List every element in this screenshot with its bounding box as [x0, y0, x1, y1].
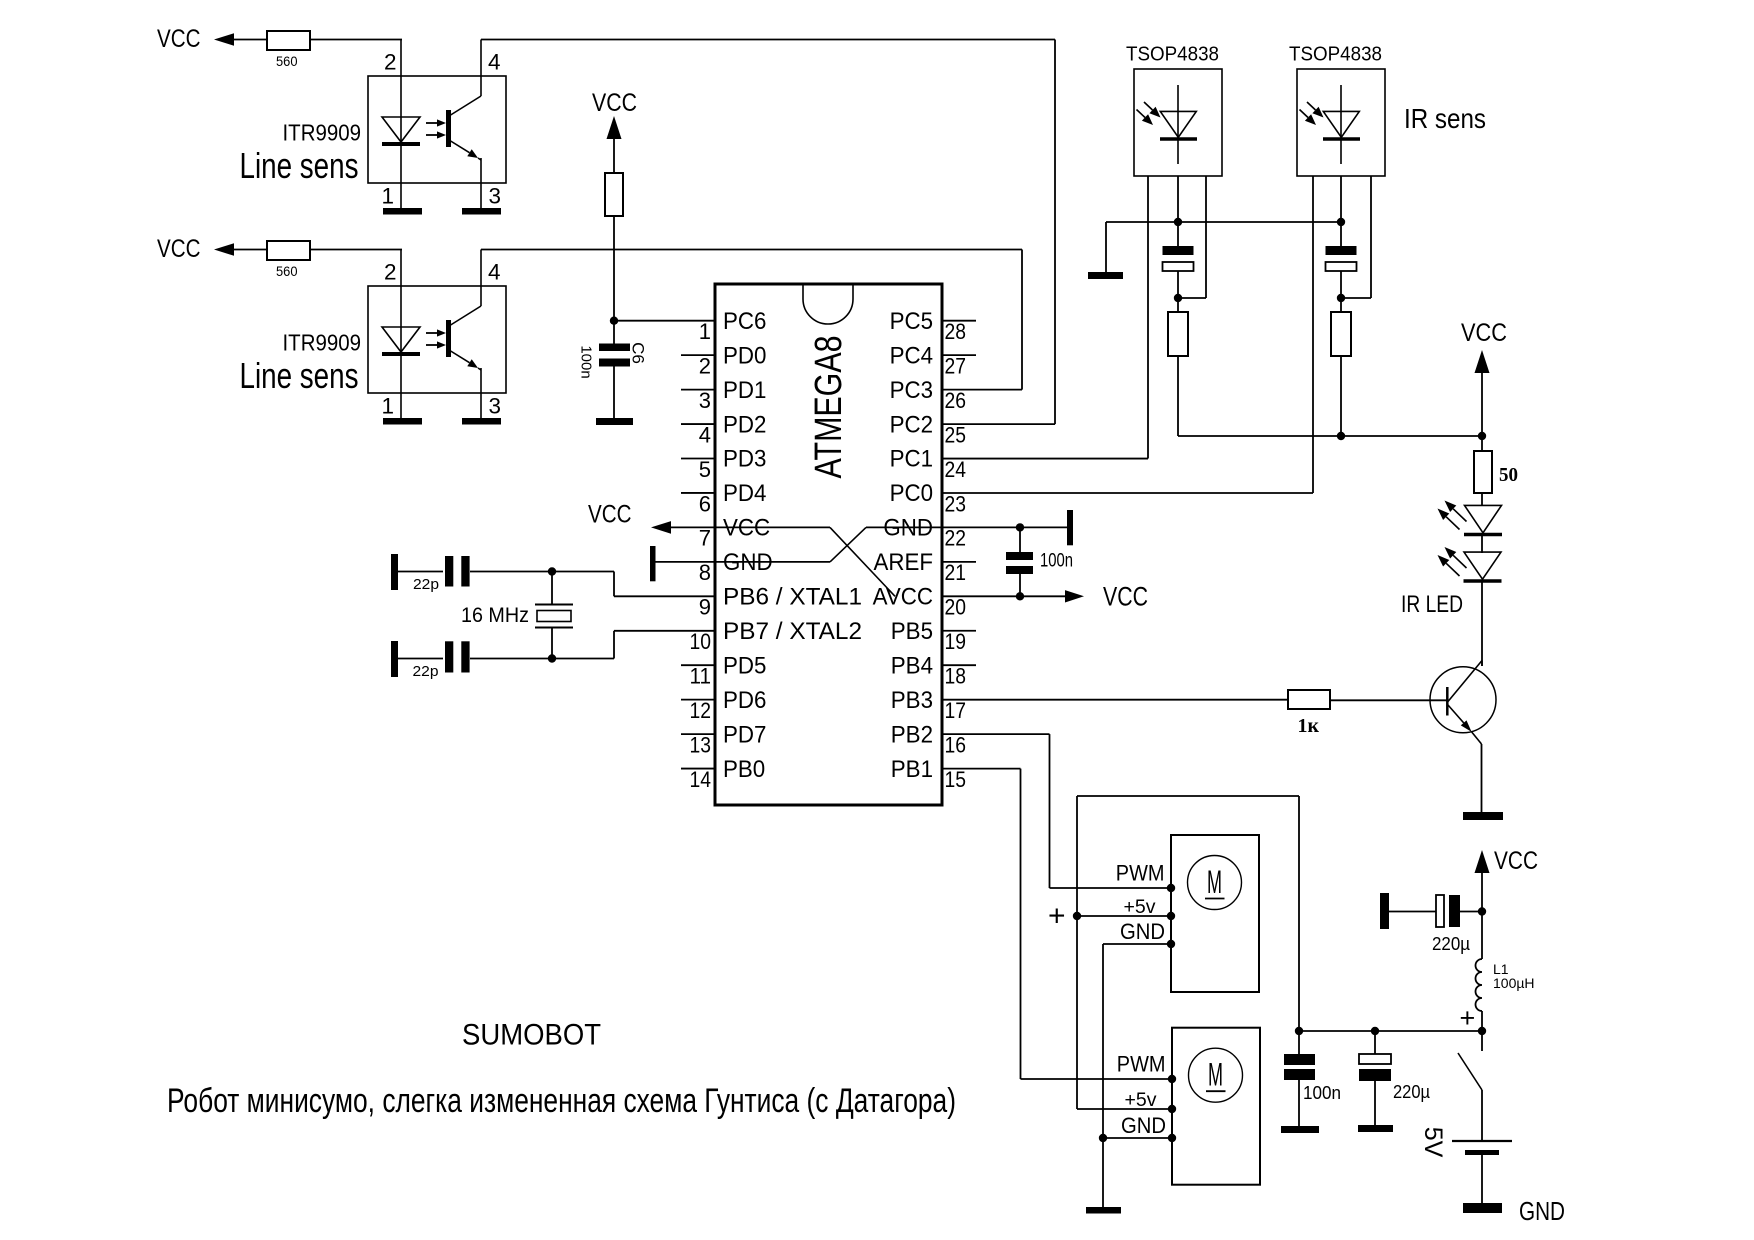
ground bar opto2 pin 3 [462, 418, 501, 425]
capacitor 100n (battery) [1298, 1031, 1300, 1054]
svg-text:1: 1 [381, 394, 394, 419]
wire AVCC out [942, 595, 1067, 597]
svg-text:28: 28 [945, 319, 967, 344]
wire XTAL1 node to PB6 pin 9 [552, 571, 614, 573]
svg-text:17: 17 [945, 698, 967, 723]
capacitor 100n (AREF/AVCC decoupling) [1006, 552, 1033, 560]
U1 pin 12 stub [681, 699, 715, 701]
svg-text:PD7: PD7 [723, 721, 766, 748]
VCC arrow (line sensor 1) [214, 33, 234, 46]
wire GND8-GND22 crossover diagonal [830, 527, 866, 562]
ground bar transistor emitter [1463, 812, 1503, 820]
capacitor 22p bottom [445, 641, 453, 672]
svg-text:IR LED: IR LED [1401, 591, 1463, 618]
wire TSOP2 resistor to VCC rail [1340, 298, 1342, 312]
opto1 phototransistor base bar [446, 110, 451, 147]
ground bar (pin 22) [1067, 510, 1073, 545]
optocoupler ITR9909 #2 body [368, 286, 506, 393]
svg-text:4: 4 [488, 260, 501, 285]
U1 pin 11 stub [681, 664, 715, 666]
ground bar opto1 pin 1 [383, 208, 422, 215]
VCC arrow (line sensor 2) [214, 243, 234, 256]
svg-text:7: 7 [699, 526, 711, 551]
optocoupler ITR9909 #1 body [368, 76, 506, 183]
svg-text:PB2: PB2 [891, 721, 933, 748]
battery 5V [1452, 1140, 1512, 1142]
opto1 pin 2 lead + LED anode wire [400, 40, 402, 209]
node battery + rail right [1478, 1027, 1486, 1035]
node motor2 PWM [1168, 1075, 1176, 1083]
TSOP2 right pin (Vs) [1370, 176, 1372, 298]
capacitor C6 100n [599, 344, 630, 352]
svg-text:C6: C6 [629, 342, 648, 364]
TSOP1 left pin (OUT) [1147, 175, 1149, 177]
U1 pin 13 stub [681, 733, 715, 735]
wire VCC-AVCC crossover diagonal [830, 527, 895, 596]
node 100n junction [1295, 1027, 1303, 1035]
U1 pin 19 stub [942, 630, 976, 632]
svg-text:15: 15 [945, 767, 967, 792]
node TSOP2 resistor junction [1337, 432, 1345, 440]
motor M1 symbol [1188, 856, 1242, 910]
wire XTAL2 node to PB7 pin 10 [552, 658, 614, 660]
IC U1 ATMEGA8 body [715, 284, 942, 805]
svg-text:1: 1 [699, 319, 711, 344]
svg-text:PWM: PWM [1117, 1052, 1166, 1077]
svg-text:100µH: 100µH [1493, 975, 1535, 991]
svg-text:16 MHz: 16 MHz [461, 604, 529, 627]
ground bar opto1 pin 3 [462, 208, 501, 215]
IR receiver TSOP4838 #2 body [1297, 69, 1385, 176]
svg-text:TSOP4838: TSOP4838 [1126, 43, 1219, 66]
resistor TSOP2 supply [1331, 312, 1351, 356]
inductor L1 100uH [1481, 912, 1483, 960]
wire resistor to node C6 [613, 216, 615, 321]
wire 22p to XTAL2 node [470, 658, 552, 660]
resistor 1k [1288, 690, 1330, 709]
svg-text:26: 26 [945, 388, 967, 413]
U1 pin 4 stub [681, 423, 715, 425]
U1 pin 18 stub [942, 664, 976, 666]
wire battery + rail [1299, 1030, 1482, 1032]
svg-text:PC4: PC4 [890, 342, 933, 369]
node motor1 +5v [1167, 912, 1175, 920]
svg-text:560: 560 [276, 54, 298, 69]
svg-text:VCC: VCC [592, 89, 637, 117]
wire transistor emitter to ground [1481, 744, 1483, 812]
ground symbol TSOP GND rail [1105, 222, 1107, 272]
svg-text:2: 2 [699, 353, 711, 378]
node TSOP2 supply junction [1337, 294, 1345, 302]
svg-text:VCC: VCC [1494, 847, 1538, 875]
svg-text:1к: 1к [1298, 715, 1320, 737]
U1 pin 6 stub [681, 492, 715, 494]
svg-text:+5v: +5v [1125, 1089, 1157, 1111]
svg-text:2: 2 [384, 260, 397, 285]
wire VCC arrow to resistor 2 [233, 249, 267, 251]
wire opto2 pin4 to PC3 (pin 26) [481, 249, 1022, 251]
svg-text:8: 8 [699, 560, 711, 585]
svg-text:22p: 22p [413, 663, 439, 680]
svg-text:23: 23 [945, 491, 967, 516]
wire TSOP2 OUT to PC0 (pin 23) [942, 492, 1313, 494]
ground bar battery [1463, 1203, 1502, 1213]
svg-text:3: 3 [699, 388, 711, 413]
svg-text:2: 2 [384, 50, 397, 75]
motor M2 body [1172, 1028, 1260, 1185]
svg-text:+: + [1460, 1003, 1476, 1033]
opto1 light arrows [426, 122, 437, 124]
svg-text:10: 10 [690, 629, 712, 654]
ground bar 22p top [391, 554, 398, 590]
capacitor 220u (battery) [1374, 1031, 1376, 1054]
TSOP1 filter capacitor [1163, 246, 1194, 255]
svg-text:GND: GND [1121, 1113, 1166, 1138]
svg-text:11: 11 [690, 664, 712, 689]
svg-text:PB6 / XTAL1: PB6 / XTAL1 [723, 584, 862, 611]
svg-text:PD3: PD3 [723, 446, 766, 473]
ground bar 100n [1281, 1126, 1319, 1133]
TSOP2 light arrows [1307, 102, 1316, 110]
wire PB3 to base resistor [942, 699, 1288, 701]
TSOP1 middle pin to GND rail [1177, 176, 1179, 222]
ground bar (pin 8) [650, 546, 656, 581]
opto2 LED [382, 327, 420, 352]
svg-text:M: M [1208, 1057, 1223, 1093]
node 220u junction [1371, 1027, 1379, 1035]
svg-text:PWM: PWM [1116, 861, 1165, 886]
wire TSOP1 resistor to VCC rail [1177, 298, 1179, 312]
svg-text:20: 20 [945, 595, 967, 620]
opto1 LED [382, 117, 420, 142]
svg-text:50: 50 [1499, 464, 1518, 486]
svg-text:13: 13 [690, 732, 712, 757]
svg-text:22: 22 [945, 526, 967, 551]
svg-text:PB1: PB1 [891, 756, 933, 783]
ground bar 220u top [1380, 893, 1389, 929]
svg-text:VCC: VCC [588, 501, 632, 529]
svg-text:1: 1 [381, 184, 394, 209]
wire TSOP1 OUT to PC1 (pin 24) [942, 458, 1148, 460]
svg-text:PC0: PC0 [890, 480, 933, 507]
node motor2 +5v [1168, 1105, 1176, 1113]
opto2 light arrows [426, 332, 437, 334]
node TSOP1 supply junction [1174, 294, 1182, 302]
ground bar 22p bottom [391, 641, 398, 677]
svg-text:Робот минисумо, слегка изменен: Робот минисумо, слегка измененная схема … [167, 1082, 956, 1120]
wire VCC arrow to resistor 1 [233, 39, 267, 41]
svg-text:100n: 100n [1040, 551, 1073, 572]
svg-text:AVCC: AVCC [873, 584, 933, 611]
wire resistor to opto1 pin 2 [310, 39, 402, 41]
svg-text:PB5: PB5 [891, 618, 933, 645]
TSOP1 light arrows [1144, 102, 1153, 110]
ground bar 220u battery [1358, 1125, 1393, 1132]
wire gnd to cap 22p top [398, 571, 443, 573]
wire gnd into pin 8 [656, 561, 831, 563]
TSOP1 right pin (Vs) [1205, 176, 1207, 298]
wire GND net motors [1103, 943, 1171, 945]
opto1 emitter with arrow [449, 140, 470, 153]
svg-text:100n: 100n [1303, 1083, 1341, 1103]
node GND tee [1099, 1134, 1107, 1142]
svg-text:ITR9909: ITR9909 [283, 120, 362, 146]
svg-text:PD5: PD5 [723, 652, 766, 679]
capacitor 22p top [445, 556, 453, 587]
TSOP2 photodiode symbol [1340, 85, 1342, 164]
node GND22 junction [1016, 523, 1024, 531]
IR receiver TSOP4838 #1 body [1134, 69, 1222, 176]
U1 pin 27 stub [942, 354, 976, 356]
node +5v tee [1073, 912, 1081, 920]
svg-text:24: 24 [945, 457, 967, 482]
ground bar C6 [596, 418, 633, 425]
wire node to PC6 pin 1 [614, 320, 715, 322]
wire LED2 to transistor collector [1481, 582, 1483, 666]
svg-text:+: + [1048, 900, 1066, 933]
svg-text:PB7 / XTAL2: PB7 / XTAL2 [723, 618, 862, 645]
svg-text:4: 4 [699, 422, 711, 447]
U1 pin 2 stub [681, 354, 715, 356]
svg-text:M: M [1207, 864, 1222, 900]
resistor TSOP1 supply [1168, 312, 1188, 356]
TSOP2 filter capacitor [1326, 246, 1357, 255]
svg-text:21: 21 [945, 560, 967, 585]
VCC arrow up (IR LED) [1475, 350, 1490, 373]
opto1 collector [449, 96, 481, 116]
svg-text:18: 18 [945, 664, 967, 689]
node motor1 GND [1167, 940, 1175, 948]
U1 pin 14 stub [681, 768, 715, 770]
resistor 50 [1474, 451, 1492, 493]
svg-text:VCC: VCC [157, 235, 201, 263]
VCC arrow (pin 7) [651, 521, 671, 534]
opto2 collector [449, 306, 481, 326]
node AVCC junction [1016, 592, 1024, 600]
TSOP1 photodiode symbol [1177, 85, 1179, 164]
switch SW1 [1481, 1031, 1483, 1051]
svg-text:220µ: 220µ [1393, 1082, 1430, 1102]
svg-text:IR sens: IR sens [1404, 103, 1486, 134]
svg-text:Line sens: Line sens [240, 355, 359, 396]
TSOP2 left pin (OUT) [1312, 175, 1314, 177]
IR LED 1 [1465, 505, 1502, 532]
svg-text:16: 16 [945, 732, 967, 757]
U1 pin 21 stub [942, 561, 976, 563]
wire VCC into pin 7 [669, 526, 830, 528]
svg-text:14: 14 [690, 767, 712, 792]
svg-text:VCC: VCC [1461, 319, 1507, 347]
svg-text:TSOP4838: TSOP4838 [1289, 43, 1382, 66]
svg-text:PD0: PD0 [723, 342, 766, 369]
svg-text:PC2: PC2 [890, 411, 933, 438]
svg-text:PC5: PC5 [890, 308, 933, 335]
svg-text:5V: 5V [1419, 1127, 1447, 1158]
node motor1 PWM [1167, 884, 1175, 892]
wire PB1 to motor2 PWM [942, 768, 1021, 770]
svg-text:VCC: VCC [157, 25, 201, 53]
VCC arrow right (AVCC) [1065, 590, 1084, 602]
opto2 emitter with arrow [449, 350, 470, 363]
motor M2 symbol [1189, 1048, 1243, 1102]
svg-text:+5v: +5v [1124, 896, 1156, 918]
VCC arrow up (pull-up top) [607, 116, 622, 139]
svg-text:25: 25 [945, 422, 967, 447]
svg-text:GND: GND [1519, 1196, 1565, 1226]
svg-text:AREF: AREF [874, 549, 934, 576]
svg-text:PD2: PD2 [723, 411, 766, 438]
IR LED 2 [1464, 552, 1501, 579]
svg-text:22p: 22p [413, 576, 439, 593]
opto2 phototransistor base bar [446, 320, 451, 357]
wire gnd to cap 22p bottom [398, 658, 443, 660]
wire 22p to XTAL1 node [470, 571, 552, 573]
svg-text:5: 5 [699, 457, 711, 482]
wire PB2 to motor1 PWM [942, 733, 1050, 735]
U1 pin 28 stub [942, 320, 976, 322]
svg-text:SUMOBOT: SUMOBOT [462, 1019, 601, 1052]
node VCC/L1/220u junction [1478, 907, 1486, 915]
wire GND22 to ground bar [1020, 526, 1067, 528]
svg-text:4: 4 [488, 50, 501, 75]
svg-text:27: 27 [945, 353, 967, 378]
transistor Q1 NPN [1430, 667, 1496, 733]
svg-text:VCC: VCC [1103, 582, 1148, 612]
svg-text:ATMEGA8: ATMEGA8 [808, 336, 850, 479]
node XTAL2 junction [548, 654, 556, 662]
VCC arrow up (power) [1475, 850, 1490, 873]
svg-text:PD4: PD4 [723, 480, 766, 507]
node VCC rail junction [1478, 432, 1486, 440]
resistor 560 #1 [267, 31, 310, 50]
svg-text:PC1: PC1 [890, 446, 933, 473]
ground bar opto2 pin 1 [383, 418, 422, 425]
svg-text:PC3: PC3 [890, 377, 933, 404]
svg-text:220µ: 220µ [1432, 934, 1470, 954]
wire resistor to LED1 [1481, 493, 1483, 506]
wire VCC to resistor [613, 138, 615, 173]
node motor2 GND [1168, 1134, 1176, 1142]
svg-text:ITR9909: ITR9909 [283, 330, 362, 356]
svg-text:PB4: PB4 [891, 652, 933, 679]
svg-text:3: 3 [489, 394, 502, 419]
ground bar motors [1086, 1207, 1121, 1214]
node junction pin1/C6 [610, 317, 618, 325]
capacitor 220u (VCC side) [1436, 895, 1444, 927]
wire battery to ground [1481, 1155, 1483, 1203]
resistor 560 #2 [267, 241, 310, 260]
TSOP2 middle pin to GND rail [1340, 176, 1342, 222]
wire TSOP GND rail [1106, 221, 1341, 223]
wire resistor to opto2 pin 2 [310, 249, 402, 251]
svg-text:19: 19 [945, 629, 967, 654]
svg-text:560: 560 [276, 264, 298, 279]
wire opto1 pin4 to PC2 (pin 25) [481, 39, 1055, 41]
wire gnd to 220u [1389, 911, 1436, 913]
svg-text:PD6: PD6 [723, 687, 766, 714]
wire LED1 to LED2 [1481, 535, 1483, 553]
U1 pin 5 stub [681, 458, 715, 460]
node XTAL1 junction [548, 567, 556, 575]
U1 pin 3 stub [681, 389, 715, 391]
svg-text:100n: 100n [578, 345, 595, 378]
pull-up resistor [605, 173, 623, 216]
svg-text:6: 6 [699, 491, 711, 516]
svg-text:PB3: PB3 [891, 687, 933, 714]
svg-text:12: 12 [690, 698, 712, 723]
motor M1 body [1171, 835, 1259, 992]
wire VCC rail (TSOP supplies + IR LED) [1178, 435, 1482, 437]
opto2 pin 2 lead + LED anode wire [400, 250, 402, 419]
svg-text:3: 3 [489, 184, 502, 209]
svg-text:PC6: PC6 [723, 308, 766, 335]
wire base resistor to transistor [1330, 699, 1447, 701]
svg-text:PB0: PB0 [723, 756, 765, 783]
svg-text:PD1: PD1 [723, 377, 766, 404]
svg-text:GND: GND [1120, 919, 1165, 944]
svg-text:Line sens: Line sens [240, 145, 359, 186]
svg-text:9: 9 [699, 595, 711, 620]
wire pin 22 GND out [866, 526, 1020, 528]
wire +5v net [1076, 796, 1078, 1109]
